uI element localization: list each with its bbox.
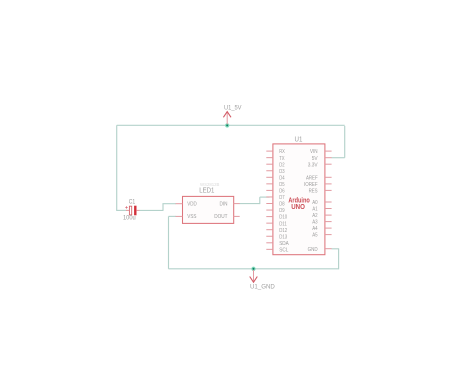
svg-text:U1: U1 — [295, 137, 303, 144]
wire C1 left lead — [116, 209, 127, 211]
net flag U1_5V arrow — [223, 112, 231, 125]
wire GND vertical — [338, 249, 340, 269]
wire step to D7 — [260, 196, 270, 198]
wire DIN step up — [259, 197, 261, 204]
svg-text:SDA: SDA — [279, 241, 289, 247]
U1 left pin labels — [279, 149, 289, 253]
svg-text:D4: D4 — [279, 175, 284, 181]
wire step up to VDD — [163, 204, 176, 211]
wire VSS horizontal — [169, 215, 177, 217]
wire top 5V rail — [117, 124, 345, 126]
svg-text:100u: 100u — [123, 216, 136, 222]
C1 left plate (hollow) — [129, 206, 131, 215]
LED1 body — [183, 196, 234, 223]
LED1 pin VDD stub — [176, 203, 183, 205]
svg-text:D13: D13 — [279, 234, 287, 240]
svg-text:VDD: VDD — [187, 202, 197, 208]
svg-text:5V: 5V — [312, 156, 318, 162]
svg-text:D2: D2 — [279, 162, 284, 168]
junction node U1_5V — [226, 124, 229, 127]
svg-text:A2: A2 — [312, 213, 317, 219]
wire 5V vertical riser — [344, 126, 346, 158]
svg-text:TX: TX — [279, 156, 285, 162]
svg-text:VIN: VIN — [310, 149, 318, 155]
svg-text:U1_5V: U1_5V — [224, 104, 242, 111]
svg-text:D7: D7 — [279, 195, 284, 201]
U1 right pin stubs — [325, 151, 332, 249]
svg-text:RES: RES — [309, 189, 318, 195]
capacitor C1 — [123, 199, 140, 221]
svg-text:D3: D3 — [279, 169, 284, 175]
svg-text:D6: D6 — [279, 189, 284, 195]
svg-text:D8: D8 — [279, 202, 284, 208]
svg-text:A0: A0 — [312, 200, 317, 206]
svg-text:D11: D11 — [279, 221, 287, 227]
LED1 pin VSS stub — [176, 215, 183, 217]
net flag U1_GND arrow — [250, 270, 258, 282]
svg-text:A3: A3 — [312, 220, 317, 226]
C1 plus sign — [125, 206, 127, 208]
C1 left lead stub — [126, 209, 129, 211]
svg-text:DIN: DIN — [220, 202, 228, 208]
svg-text:WS2812B: WS2812B — [200, 182, 220, 187]
svg-text:SCL: SCL — [279, 247, 288, 253]
svg-text:D12: D12 — [279, 228, 287, 234]
svg-text:U1_GND: U1_GND — [250, 283, 275, 290]
svg-text:D9: D9 — [279, 208, 284, 214]
wire DIN to step — [240, 203, 260, 205]
C1 right plate (solid) — [134, 206, 136, 216]
wire GND pin horizontal — [332, 248, 340, 250]
svg-text:D5: D5 — [279, 182, 284, 188]
Arduino UNO U1 — [266, 137, 331, 255]
wire 5V pin horizontal — [332, 157, 345, 159]
U1 body — [273, 144, 325, 255]
wire VSS drop — [168, 216, 170, 268]
wire C1 right to step — [139, 209, 163, 211]
wire left drop to C1 — [116, 125, 118, 210]
svg-text:GND: GND — [308, 247, 318, 253]
svg-text:A4: A4 — [312, 226, 317, 232]
svg-text:RX: RX — [279, 149, 285, 155]
LED strip LED1 — [176, 182, 240, 223]
svg-text:DOUT: DOUT — [214, 214, 228, 220]
svg-text:A5: A5 — [312, 233, 317, 239]
wire bottom GND rail — [169, 268, 339, 270]
svg-text:D10: D10 — [279, 215, 287, 221]
svg-text:VSS: VSS — [187, 214, 196, 220]
svg-text:3.3V: 3.3V — [308, 162, 318, 168]
LED1 pin DIN stub — [234, 203, 240, 205]
U1 right pin labels — [304, 149, 318, 253]
svg-text:LED1: LED1 — [199, 188, 214, 195]
C1 right lead stub — [137, 209, 140, 211]
svg-text:UNO: UNO — [291, 204, 305, 211]
U1 left pin stubs — [266, 151, 273, 249]
svg-text:IOREF: IOREF — [304, 182, 318, 188]
svg-text:AREF: AREF — [306, 175, 318, 181]
junction node U1_GND — [252, 267, 255, 270]
svg-text:C1: C1 — [129, 199, 136, 205]
LED1 pin DOUT stub — [234, 215, 240, 217]
svg-text:A1: A1 — [312, 207, 317, 213]
